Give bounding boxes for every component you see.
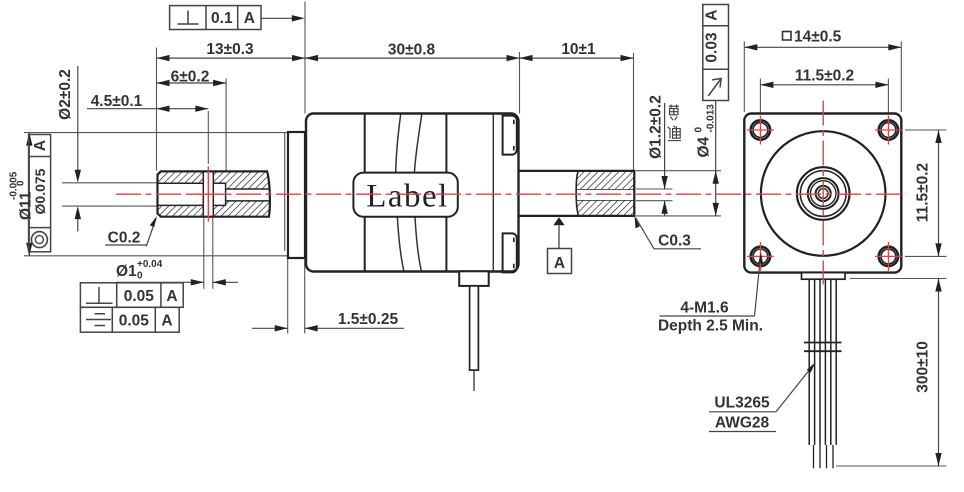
svg-text:-0.005: -0.005: [8, 171, 19, 200]
svg-text:A: A: [166, 288, 177, 305]
svg-text:1.5±0.25: 1.5±0.25: [338, 311, 399, 328]
svg-text:0: 0: [137, 271, 143, 282]
svg-text:AWG28: AWG28: [715, 415, 770, 432]
svg-text:C0.2: C0.2: [108, 230, 141, 247]
svg-text:4.5±0.1: 4.5±0.1: [91, 93, 143, 110]
svg-text:13±0.3: 13±0.3: [206, 41, 254, 58]
svg-text:11.5±0.2: 11.5±0.2: [795, 68, 854, 85]
svg-text:300±10: 300±10: [915, 341, 932, 393]
svg-text:Depth 2.5 Min.: Depth 2.5 Min.: [658, 318, 763, 335]
svg-text:A: A: [244, 10, 255, 27]
svg-text:4-M1.6: 4-M1.6: [680, 300, 729, 317]
svg-text:11.5±0.2: 11.5±0.2: [915, 163, 932, 222]
svg-text:0.05: 0.05: [119, 312, 150, 329]
svg-text:6±0.2: 6±0.2: [171, 69, 210, 86]
svg-text:C0.3: C0.3: [658, 233, 691, 250]
svg-text:A: A: [161, 312, 172, 329]
svg-text:+0.04: +0.04: [137, 259, 163, 270]
svg-text:0.1: 0.1: [211, 10, 233, 27]
svg-text:Ø0.075: Ø0.075: [32, 168, 48, 214]
svg-text:Ø1: Ø1: [116, 263, 137, 280]
svg-text:Label: Label: [366, 179, 449, 215]
svg-text:14±0.5: 14±0.5: [794, 29, 842, 46]
svg-text:A: A: [32, 140, 49, 151]
svg-text:Ø4: Ø4: [696, 136, 713, 157]
svg-text:Ø1.2±0.2: Ø1.2±0.2: [648, 95, 665, 159]
svg-text:Ø2±0.2: Ø2±0.2: [57, 69, 74, 120]
svg-text:0.05: 0.05: [124, 288, 155, 305]
svg-text:10±1: 10±1: [561, 41, 596, 58]
svg-text:UL3265: UL3265: [714, 395, 770, 412]
svg-text:A: A: [554, 255, 565, 272]
svg-text:0.03: 0.03: [703, 32, 720, 63]
svg-text:Ø11: Ø11: [17, 191, 34, 220]
svg-text:A: A: [703, 9, 720, 20]
svg-text:-0.013: -0.013: [706, 104, 717, 133]
svg-text:30±0.8: 30±0.8: [388, 42, 436, 59]
svg-text:0: 0: [694, 127, 705, 133]
